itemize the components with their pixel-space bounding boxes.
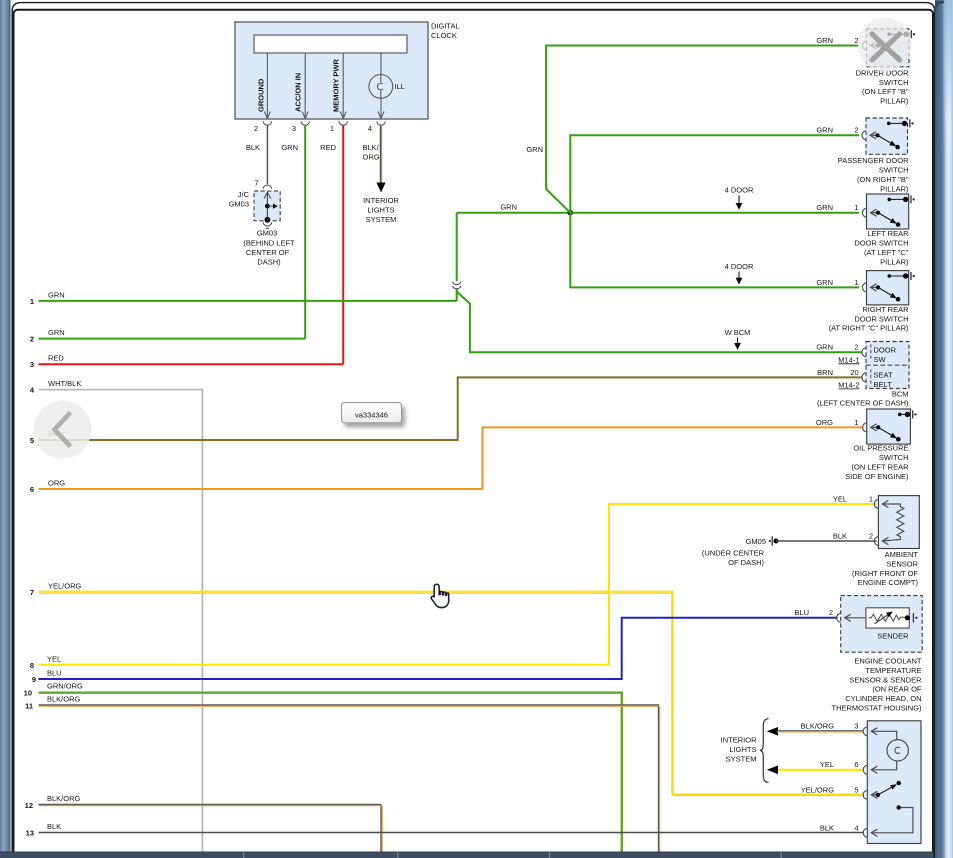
mouse cursor (431, 584, 448, 607)
svg-text:13: 13 (26, 829, 34, 838)
GM05 location label (702, 548, 765, 567)
label oil pressure switch (845, 444, 909, 481)
svg-text:GRN: GRN (526, 145, 543, 154)
interior lights system label top (363, 196, 399, 224)
right scrollbar bar (935, 0, 953, 858)
svg-text:SENSOR: SENSOR (886, 560, 918, 569)
svg-text:4 DOOR: 4 DOOR (725, 262, 754, 271)
svg-text:ACC/ON IN: ACC/ON IN (294, 73, 303, 112)
svg-text:CYLINDER HEAD, ON: CYLINDER HEAD, ON (845, 694, 921, 703)
module BCM (862, 342, 909, 390)
svg-text:GROUND: GROUND (257, 78, 266, 112)
wire label GRN pin1 right rear (816, 278, 858, 287)
watermark back button (34, 401, 92, 459)
door switch SW1 driver (862, 29, 915, 67)
clock wire colour labels (246, 143, 380, 162)
wire label GRN pin2 passenger (816, 126, 858, 135)
svg-text:7: 7 (254, 179, 258, 188)
wire GRN to junction (457, 212, 571, 214)
wire GRN to left rear door switch (570, 212, 859, 214)
svg-text:BLU: BLU (47, 669, 62, 678)
svg-text:1: 1 (854, 278, 858, 287)
bottom status band (0, 852, 934, 858)
svg-text:PILLAR): PILLAR) (880, 257, 909, 266)
svg-text:BLK: BLK (820, 823, 834, 832)
label right rear door switch (829, 305, 909, 333)
wire label BLK pin4 odo (820, 823, 859, 832)
wire label BLK pin2 ambient (833, 531, 873, 540)
wire 4 WHT/BLK (30, 379, 203, 852)
svg-text:BLU: BLU (794, 608, 809, 617)
svg-text:BELT: BELT (874, 380, 893, 389)
door switch SW3 left rear (862, 194, 914, 229)
svg-text:SENDER: SENDER (877, 632, 909, 641)
svg-text:SWITCH: SWITCH (879, 453, 909, 462)
label left rear door switch (854, 229, 909, 266)
wire GRN branch to BCM (457, 292, 862, 353)
coolant temperature sender (837, 596, 923, 653)
svg-text:BLK/ORG: BLK/ORG (801, 722, 835, 731)
svg-text:GRN: GRN (281, 143, 298, 152)
svg-text:SYSTEM: SYSTEM (726, 754, 757, 763)
svg-text:RED: RED (320, 143, 336, 152)
svg-text:J/C: J/C (238, 190, 250, 199)
svg-text:(BEHIND LEFT: (BEHIND LEFT (243, 238, 295, 247)
wire label YEL pin1 ambient (833, 494, 873, 503)
4 DOOR annotation right rear (725, 262, 754, 285)
tooltip va334346 (342, 403, 402, 423)
svg-text:YEL: YEL (820, 760, 834, 769)
svg-text:RIGHT REAR: RIGHT REAR (862, 305, 909, 314)
svg-text:4: 4 (854, 823, 858, 832)
wire 2 GRN (30, 328, 305, 344)
door switch SW2 passenger (862, 118, 914, 154)
left scrollbar bar (0, 0, 11, 852)
wire 5 BRN (30, 377, 862, 445)
wire label YEL pin6 odo (820, 760, 859, 769)
svg-text:SW: SW (874, 355, 887, 364)
svg-text:5: 5 (30, 436, 34, 445)
svg-text:PASSENGER DOOR: PASSENGER DOOR (838, 156, 909, 165)
svg-text:OIL PRESSURE: OIL PRESSURE (853, 444, 908, 453)
svg-text:(RIGHT FRONT OF: (RIGHT FRONT OF (852, 569, 918, 578)
svg-text:7: 7 (30, 588, 34, 597)
wire 6 ORG (30, 427, 862, 494)
svg-text:WHT/BLK: WHT/BLK (48, 379, 81, 388)
svg-text:OF DASH): OF DASH) (728, 558, 764, 567)
svg-text:RED: RED (48, 354, 64, 363)
wire 10 GRN/ORG (24, 681, 623, 852)
svg-text:BRN: BRN (817, 368, 833, 377)
svg-text:GM05: GM05 (746, 537, 766, 546)
label coolant sensor (832, 657, 923, 713)
svg-text:SEAT: SEAT (874, 371, 893, 380)
svg-text:DOOR: DOOR (874, 346, 897, 355)
connector GM05 (746, 536, 779, 546)
svg-text:3: 3 (292, 124, 296, 133)
label BCM (817, 390, 909, 408)
svg-text:(UNDER CENTER: (UNDER CENTER (702, 548, 765, 557)
svg-text:INTERIOR: INTERIOR (721, 736, 757, 745)
wire label BLK/ORG pin3 odo (801, 722, 859, 731)
junction connector J/C GM03 (254, 191, 280, 223)
svg-text:GM03: GM03 (229, 200, 249, 209)
svg-text:3: 3 (30, 360, 34, 369)
svg-text:GRN: GRN (816, 36, 833, 45)
svg-text:11: 11 (25, 702, 33, 711)
svg-text:(LEFT CENTER OF DASH): (LEFT CENTER OF DASH) (817, 399, 909, 408)
svg-text:1: 1 (854, 418, 858, 427)
svg-text:GRN: GRN (48, 290, 65, 299)
svg-text:W BCM: W BCM (725, 328, 751, 337)
svg-text:10: 10 (24, 688, 32, 697)
wire label GRN pin2 BCM + M14-1 (816, 343, 859, 365)
ambient sensor (874, 496, 919, 549)
svg-text:INTERIOR: INTERIOR (363, 196, 399, 205)
svg-text:PILLAR): PILLAR) (880, 97, 909, 106)
svg-text:ILL: ILL (395, 82, 405, 91)
svg-text:12: 12 (25, 801, 33, 810)
svg-text:BLK/: BLK/ (363, 143, 380, 152)
watermark close button X (858, 18, 912, 72)
svg-text:LIGHTS: LIGHTS (729, 745, 756, 754)
GM03 location label (243, 229, 295, 267)
svg-text:ORG: ORG (363, 153, 380, 162)
wire GRN diagonal + riser to driver door switch (546, 46, 859, 213)
svg-text:DIGITAL: DIGITAL (431, 22, 460, 31)
wire 3 RED (30, 354, 343, 370)
J/C GM03 side label (229, 190, 250, 209)
svg-text:M14-2: M14-2 (838, 380, 859, 389)
svg-text:2: 2 (854, 343, 858, 352)
wire 1 GRN (30, 290, 457, 306)
wire label ORG pin1 oil pressure (816, 418, 859, 427)
4 DOOR annotation left rear (725, 186, 754, 210)
svg-text:YEL/ORG: YEL/ORG (48, 582, 82, 591)
label passenger door switch (838, 156, 909, 193)
oil pressure switch (863, 409, 917, 444)
svg-text:BCM: BCM (892, 390, 909, 399)
wire 8 YEL (30, 504, 876, 670)
wire clock pin4 BLK/ORG down (376, 125, 385, 193)
svg-text:4: 4 (368, 124, 372, 133)
svg-text:6: 6 (30, 485, 34, 494)
interior lights system brace (760, 719, 769, 783)
svg-text:9: 9 (32, 675, 36, 684)
svg-text:SWITCH: SWITCH (879, 166, 909, 175)
interior lights system label bottom (721, 736, 757, 764)
svg-text:8: 8 (30, 661, 34, 670)
svg-text:(AT LEFT "C": (AT LEFT "C" (864, 248, 909, 257)
svg-text:GRN: GRN (48, 328, 65, 337)
svg-text:2: 2 (869, 531, 873, 540)
svg-text:GM03: GM03 (257, 229, 277, 238)
svg-text:YEL/ORG: YEL/ORG (801, 785, 835, 794)
svg-text:DOOR SWITCH: DOOR SWITCH (854, 239, 908, 248)
wire label GRN pin1 left rear (816, 203, 858, 212)
svg-text:SWITCH: SWITCH (879, 78, 909, 87)
svg-text:BLK/ORG: BLK/ORG (47, 695, 81, 704)
svg-text:BLK: BLK (246, 143, 260, 152)
svg-text:ENGINE COOLANT: ENGINE COOLANT (854, 657, 922, 666)
svg-text:LIGHTS: LIGHTS (367, 206, 394, 215)
svg-text:SIDE OF ENGINE): SIDE OF ENGINE) (845, 472, 909, 481)
svg-text:M14-1: M14-1 (838, 355, 859, 364)
label ambient sensor (852, 550, 919, 587)
connector arc at J/C GM03 top (263, 185, 271, 189)
svg-text:1: 1 (30, 297, 34, 306)
svg-text:BLK: BLK (47, 822, 61, 831)
svg-text:5: 5 (854, 785, 858, 794)
svg-text:ENGINE COMPT): ENGINE COMPT) (858, 578, 919, 587)
svg-text:SYSTEM: SYSTEM (366, 215, 397, 224)
svg-text:GRN: GRN (816, 343, 833, 352)
svg-text:(AT RIGHT "C" PILLAR): (AT RIGHT "C" PILLAR) (829, 324, 909, 333)
svg-text:3: 3 (854, 722, 858, 731)
wire GRN riser to passenger door switch (570, 135, 859, 212)
svg-text:BLK: BLK (833, 531, 847, 540)
clock pin numbers (254, 124, 372, 133)
wire clock pin3 GRN down (304, 125, 306, 339)
wire 11 BLK/ORG (25, 695, 660, 853)
wire BLK GM05 to ambient pin2 (776, 540, 877, 542)
digital clock label (431, 22, 460, 41)
svg-text:DOOR SWITCH: DOOR SWITCH (854, 314, 908, 323)
lamp ILL inside clock (369, 75, 393, 99)
svg-text:PILLAR): PILLAR) (880, 184, 909, 193)
svg-text:LEFT REAR: LEFT REAR (867, 229, 909, 238)
svg-text:(ON LEFT "B": (ON LEFT "B" (862, 87, 909, 96)
svg-text:MEMORY PWR: MEMORY PWR (332, 58, 341, 112)
svg-text:THERMOSTAT HOUSING): THERMOSTAT HOUSING) (832, 703, 923, 712)
wire label BLU pin2 coolant sender (794, 608, 833, 617)
svg-text:2: 2 (854, 126, 858, 135)
wire label YEL/ORG pin5 odo (801, 785, 859, 794)
wire 12 BLK/ORG (25, 794, 382, 852)
svg-text:CENTER OF: CENTER OF (246, 248, 290, 257)
junction node (568, 210, 574, 216)
svg-text:ORG: ORG (816, 418, 833, 427)
digital clock body (235, 22, 428, 119)
wire label BRN pin20 BCM + M14-2 (817, 368, 859, 390)
wire 7 YEL/ORG (30, 582, 864, 796)
svg-text:1: 1 (854, 203, 858, 212)
wire 9 BLU (32, 618, 838, 684)
svg-text:TEMPERATURE: TEMPERATURE (865, 666, 921, 675)
wire label GRN pin2 driver (816, 36, 858, 45)
svg-text:CLOCK: CLOCK (431, 31, 457, 40)
wire clock pin2 BLK to J/C GM03 (266, 125, 268, 184)
odo trip meter module (863, 721, 921, 844)
interior lights system arrows bottom (767, 727, 864, 774)
ground symbol below GM03 (263, 222, 271, 228)
wire GRN riser from wire1 (453, 213, 461, 301)
svg-text:GRN: GRN (816, 126, 833, 135)
door switch SW4 right rear (862, 271, 914, 305)
svg-text:(ON REAR OF: (ON REAR OF (872, 685, 922, 694)
svg-text:2: 2 (829, 608, 833, 617)
wire 13 BLK (26, 822, 864, 838)
wire clock pin1 RED down (342, 125, 344, 364)
svg-text:6: 6 (854, 760, 858, 769)
svg-text:GRN: GRN (816, 203, 833, 212)
clock pin connector arcs (263, 121, 385, 125)
svg-text:(ON LEFT REAR: (ON LEFT REAR (852, 462, 910, 471)
svg-text:AMBIENT: AMBIENT (885, 550, 919, 559)
svg-text:2: 2 (254, 124, 258, 133)
svg-text:va334346: va334346 (355, 410, 388, 419)
svg-text:ORG: ORG (48, 479, 65, 488)
svg-text:YEL: YEL (833, 494, 847, 503)
svg-text:4 DOOR: 4 DOOR (725, 186, 754, 195)
clock internal pin lines (264, 53, 384, 119)
svg-text:DASH): DASH) (257, 257, 281, 266)
svg-text:1: 1 (869, 494, 873, 503)
svg-text:GRN: GRN (816, 278, 833, 287)
W BCM annotation (725, 328, 751, 350)
svg-text:SENSOR & SENDER: SENSOR & SENDER (849, 675, 922, 684)
svg-text:BLK/ORG: BLK/ORG (47, 794, 81, 803)
svg-text:2: 2 (30, 335, 34, 344)
svg-text:20: 20 (850, 368, 858, 377)
label driver door switch (856, 69, 910, 106)
svg-text:GRN/ORG: GRN/ORG (47, 681, 83, 690)
wire GRN drop to right rear door switch (570, 213, 859, 288)
svg-text:1: 1 (330, 124, 334, 133)
svg-text:(ON RIGHT "B": (ON RIGHT "B" (857, 175, 909, 184)
svg-text:YEL: YEL (47, 654, 61, 663)
svg-text:GRN: GRN (500, 203, 517, 212)
